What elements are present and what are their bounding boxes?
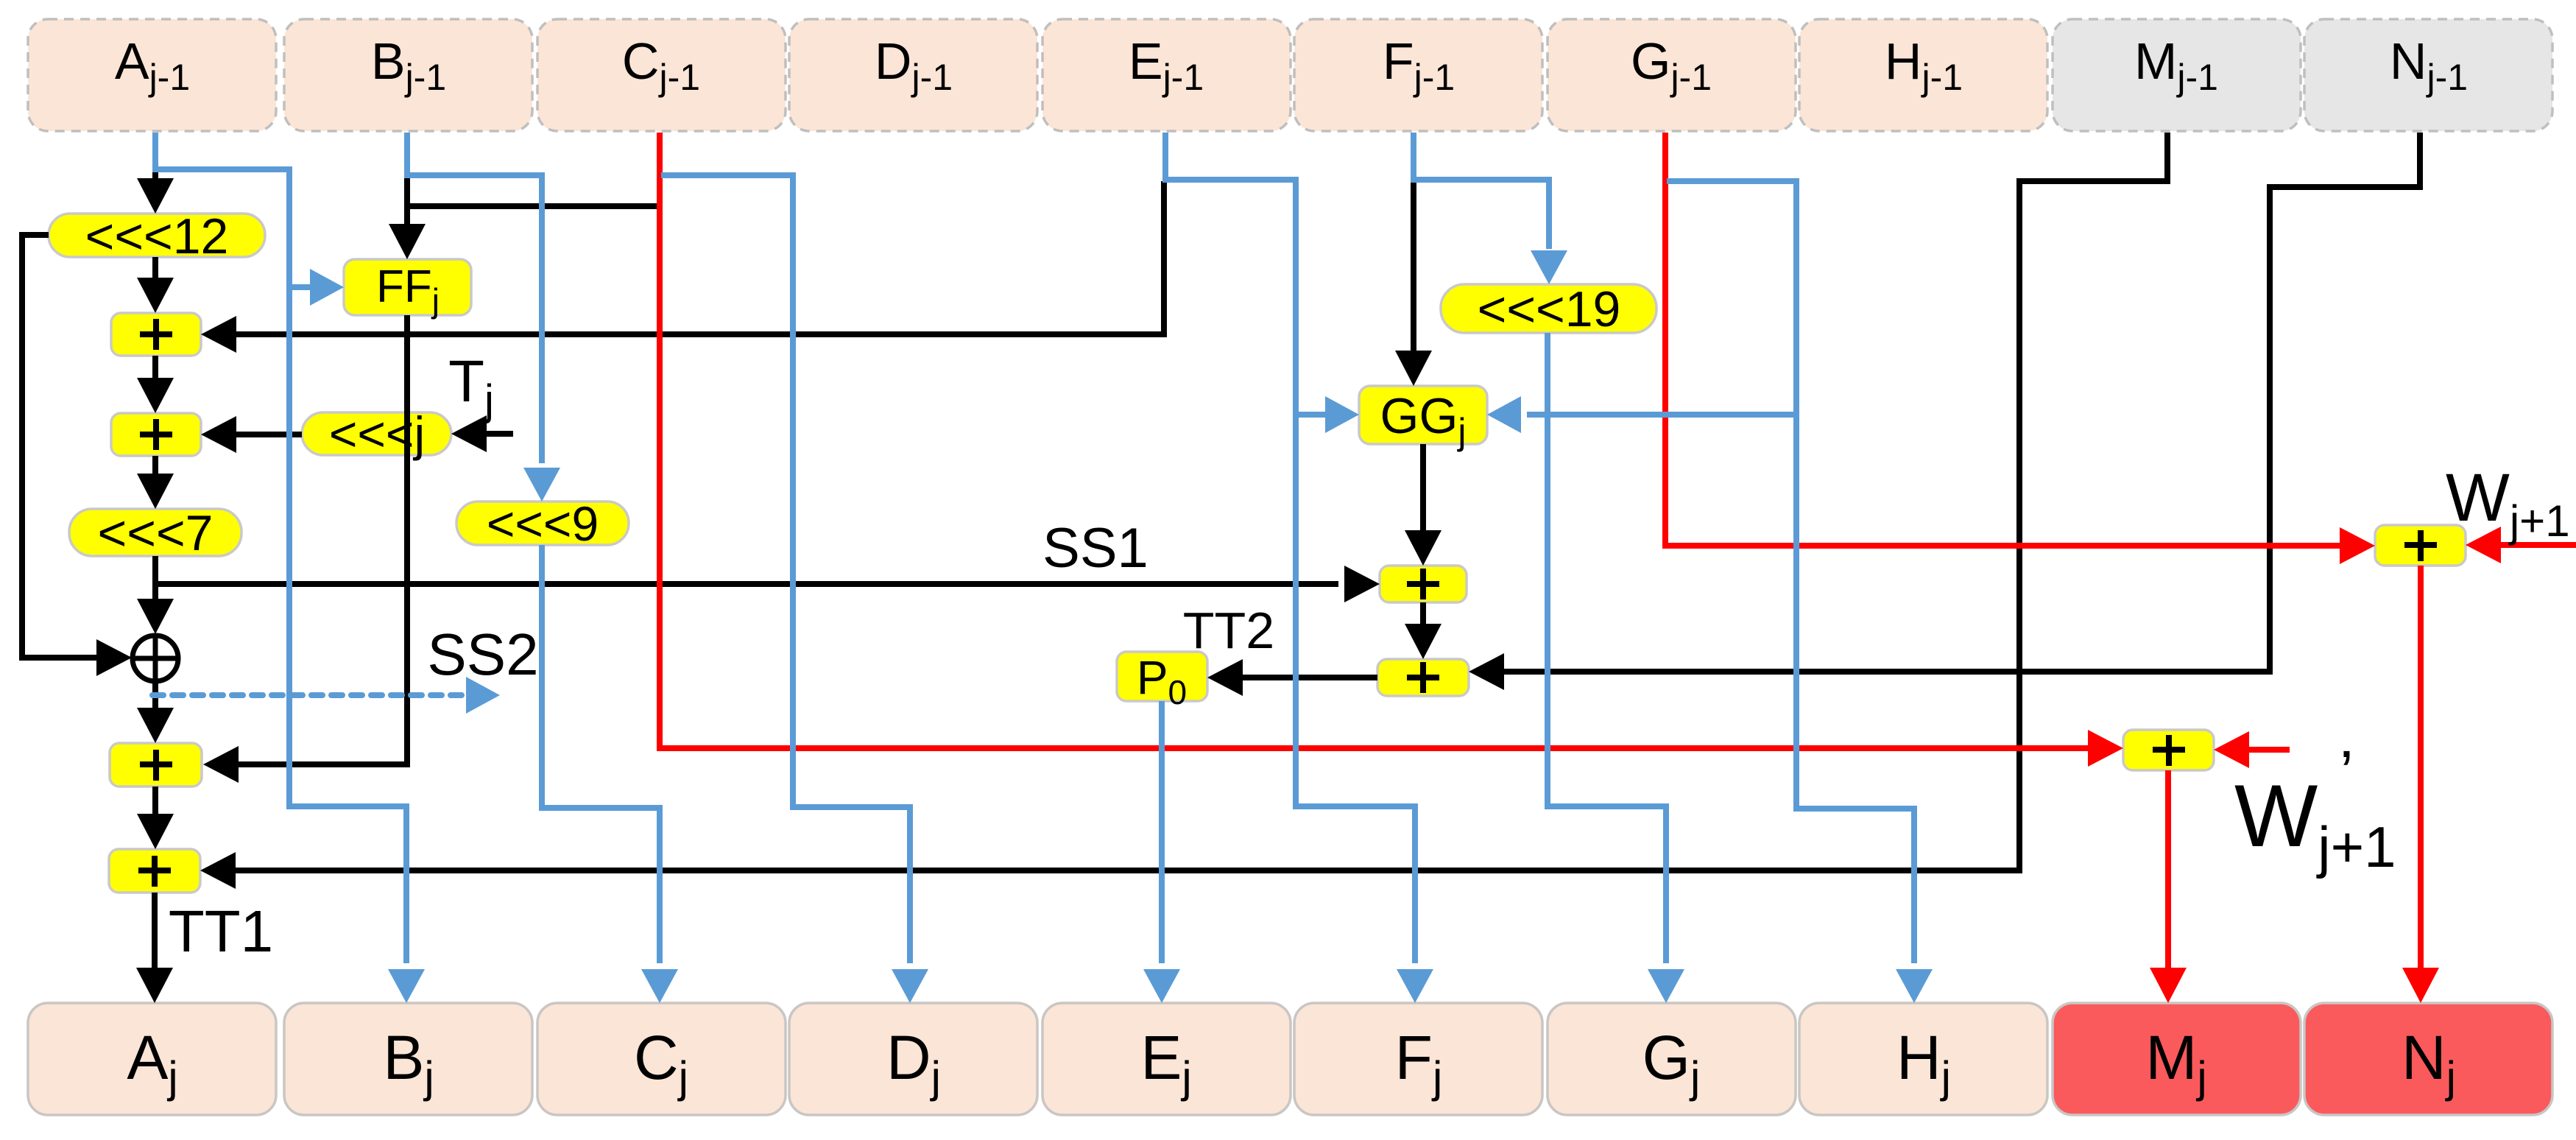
svg-text:TT1: TT1 — [169, 898, 273, 964]
svg-text:FFj: FFj — [376, 261, 440, 320]
wire GG_j output into adder A5 — [1405, 444, 1441, 566]
wire T_j input into <<<j — [451, 415, 513, 452]
svg-text:<<<j: <<<j — [329, 407, 425, 461]
wire C_j-1 red down then right into adder A8 — [660, 133, 2123, 767]
wire <<<12 output into adder A1 — [137, 257, 174, 313]
register G_j (output) — [1548, 1003, 1796, 1115]
boolean function FF_j box — [344, 259, 471, 320]
wire P_0 output to E_j — [1143, 701, 1180, 1003]
wire <<<19 output to G_j — [1548, 333, 1684, 1003]
wire A value branch into FF_j — [289, 269, 344, 306]
rotate-left-7 box (<<<7) — [69, 505, 241, 561]
register C_j (output) — [537, 1003, 786, 1115]
svg-text:’: ’ — [2340, 738, 2354, 807]
svg-text:<<<19: <<<19 — [1478, 281, 1621, 337]
adder A3 (+ after XOR) — [110, 743, 202, 787]
svg-text:GGj: GGj — [1380, 388, 1467, 452]
register C_j-1 (input) — [537, 19, 786, 131]
svg-text:<<<12: <<<12 — [85, 208, 229, 264]
adder A7 (W_j+1 adder) — [2375, 525, 2466, 566]
svg-text:Wj+1: Wj+1 — [2234, 767, 2396, 879]
wire W_j+1 input into adder A7 — [2466, 527, 2576, 563]
wire G_j-1 red down then right into adder A7 — [1665, 133, 2375, 564]
wire TT2 from adder A6 into P_0 — [1207, 659, 1377, 696]
wire adder A3 to adder A4 — [137, 787, 174, 849]
wire <<<12 feedback loop into XOR — [22, 235, 132, 676]
adder A2 (+ T_j input) — [111, 413, 201, 456]
wire <<<9 output to C_j — [542, 545, 678, 1003]
rotate-left-12 box (<<<12) — [49, 208, 265, 264]
register D_j-1 (input) — [789, 19, 1037, 131]
svg-text:<<<7: <<<7 — [98, 505, 214, 561]
register B_j-1 (input) — [284, 19, 532, 131]
wire XOR output into adder A3 — [137, 681, 174, 743]
wire B_j-1 blue into <<<9 — [407, 133, 560, 502]
wire N_j-1 down and left into adder A6 — [1469, 133, 2420, 690]
adder A8 (W'_j+1 adder) — [2123, 730, 2214, 770]
svg-text:TT2: TT2 — [1183, 602, 1274, 659]
register A_j-1 (input) — [28, 19, 276, 131]
wire A_j-1 down into <<<12 — [137, 171, 174, 214]
wire M_j-1 down and left into adder A4 — [200, 133, 2167, 889]
svg-text:<<<9: <<<9 — [487, 496, 599, 551]
wire C_j-1 blue to D_j — [661, 175, 928, 1003]
svg-text:SS2: SS2 — [427, 622, 538, 687]
wire SS1 from <<<7 output to adder A5 — [155, 566, 1380, 602]
wire F_j-1 down into GG_j — [1395, 181, 1432, 386]
register M_j (output) — [2053, 1003, 2301, 1115]
wire <<<j output into adder A2 — [201, 416, 302, 453]
wire E_j-1 down then left into adder A1 — [201, 181, 1164, 353]
wire A_j-1 blue to B_j — [155, 133, 425, 1003]
wire adder A5 to adder A6 — [1405, 602, 1441, 659]
adder A4 (TT1 adder) — [109, 849, 200, 893]
wire C value tap to FF input column — [407, 203, 660, 209]
wire G_j-1 blue to H_j — [1667, 181, 1933, 1003]
register N_j (output) — [2304, 1003, 2552, 1115]
wire FF_j output down then left into adder A3 — [203, 315, 407, 783]
register G_j-1 (input) — [1548, 19, 1796, 131]
register E_j (output) — [1042, 1003, 1291, 1115]
svg-text:SS1: SS1 — [1042, 517, 1148, 580]
register N_j-1 (input) — [2304, 19, 2552, 131]
register A_j (output) — [28, 1003, 276, 1115]
XOR node (A<<<12 xor ...) — [133, 634, 178, 683]
register H_j (output) — [1799, 1003, 2047, 1115]
wire G value branch into GG_j — [1487, 396, 1796, 433]
wire adder A2 to <<<7 — [137, 456, 174, 509]
adder A6 (TT2 adder) — [1377, 659, 1469, 696]
register H_j-1 (input) — [1799, 19, 2047, 131]
wire E_j-1 blue to F_j — [1165, 133, 1433, 1003]
register F_j (output) — [1294, 1003, 1542, 1115]
svg-text:Wj+1: Wj+1 — [2446, 460, 2570, 546]
wire B_j-1 down into FF_j — [389, 177, 426, 259]
rotate-left-9 box (<<<9) — [456, 496, 629, 551]
adder A5 (SS1 + GG output) — [1380, 566, 1467, 602]
adder A1 (+ after <<<12) — [111, 313, 201, 356]
permutation P_0 box — [1117, 651, 1207, 711]
wire E value branch into GG_j — [1296, 396, 1359, 433]
rotate-left-19 box (<<<19) — [1441, 281, 1656, 337]
register E_j-1 (input) — [1042, 19, 1291, 131]
wire TT1 from adder A4 into A_j — [136, 893, 173, 1003]
boolean function GG_j box — [1359, 386, 1487, 452]
register F_j-1 (input) — [1294, 19, 1542, 131]
register M_j-1 (input) — [2053, 19, 2301, 131]
wire SS2 dashed from XOR output — [152, 677, 500, 714]
svg-text:Tj: Tj — [448, 348, 494, 424]
wire adder A7 output into N_j — [2402, 566, 2439, 1003]
wire adder A8 output into M_j — [2150, 770, 2187, 1003]
wire F_j-1 blue into <<<19 — [1414, 133, 1567, 284]
wire W'_j+1 input into adder A8 — [2214, 731, 2290, 768]
register B_j (output) — [284, 1003, 532, 1115]
rotate-left-j box (<<<j) — [302, 407, 451, 461]
wire adder A1 to adder A2 — [137, 356, 174, 413]
register D_j (output) — [789, 1003, 1037, 1115]
wire <<<7 output down into XOR — [137, 556, 174, 634]
